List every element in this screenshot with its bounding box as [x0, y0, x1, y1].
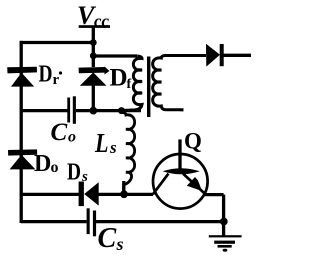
inductor Ls — [122, 113, 134, 191]
transformer T1 feedback winding — [153, 56, 206, 112]
wire top-left horizontal — [20, 41, 94, 44]
wire Ls bottom lead — [122, 181, 125, 194]
wire emitter vertical — [222, 195, 225, 237]
wire output right — [224, 54, 252, 57]
svg-text:s: s — [116, 234, 124, 254]
node D: Ls top junction — [118, 107, 125, 114]
svg-text:s: s — [81, 169, 88, 185]
transistor Q emitter arrow — [187, 177, 202, 191]
transformer core — [147, 57, 150, 118]
wire feedback to base vertical — [178, 139, 181, 169]
svg-text:r: r — [53, 72, 60, 88]
ground — [209, 235, 242, 252]
svg-text:C: C — [51, 119, 68, 146]
node B: transformer primary top junction — [90, 52, 97, 59]
svg-text:D: D — [67, 160, 81, 186]
wire left rail — [20, 41, 23, 223]
wire Vcc vertical — [92, 27, 95, 67]
diode Ds — [79, 182, 99, 207]
transistor Q base bar — [163, 168, 200, 174]
wire Df to Co node — [92, 85, 95, 110]
node C: Df / Co line junction — [89, 107, 97, 115]
diode Df — [79, 67, 110, 86]
svg-text:C: C — [98, 223, 117, 254]
Vcc terminal bar — [79, 25, 110, 28]
capacitor Co — [67, 96, 76, 124]
capacitor Cs — [87, 208, 97, 236]
node E: Ls / Ds line junction — [120, 190, 128, 198]
wire Ds line — [21, 193, 153, 196]
transistor Q — [153, 154, 208, 209]
node F: emitter / Cs junction — [220, 218, 228, 226]
diode Do — [8, 149, 37, 169]
svg-text:o: o — [68, 129, 76, 146]
transistor Q emitter lead — [183, 174, 205, 194]
svg-text:L: L — [94, 128, 108, 158]
diode Dr — [7, 67, 37, 87]
svg-text:s: s — [109, 138, 117, 157]
wire emitter horizontal — [205, 193, 224, 196]
svg-text:D: D — [110, 65, 128, 92]
svg-text:Q: Q — [184, 129, 202, 154]
transformer T1 primary winding — [124, 56, 142, 110]
wire transformer primary top lead — [93, 54, 137, 57]
svg-text:o: o — [51, 159, 59, 176]
svg-text:D: D — [39, 62, 53, 88]
node A: Vcc / left-rail junction — [90, 39, 97, 46]
diode D1 (output rectifier) — [206, 44, 224, 67]
wire Cs line — [21, 220, 224, 223]
svg-text:f: f — [127, 77, 132, 92]
svg-text:D: D — [34, 151, 51, 177]
transistor Q collector lead — [153, 174, 169, 195]
wire Co line — [21, 109, 141, 112]
